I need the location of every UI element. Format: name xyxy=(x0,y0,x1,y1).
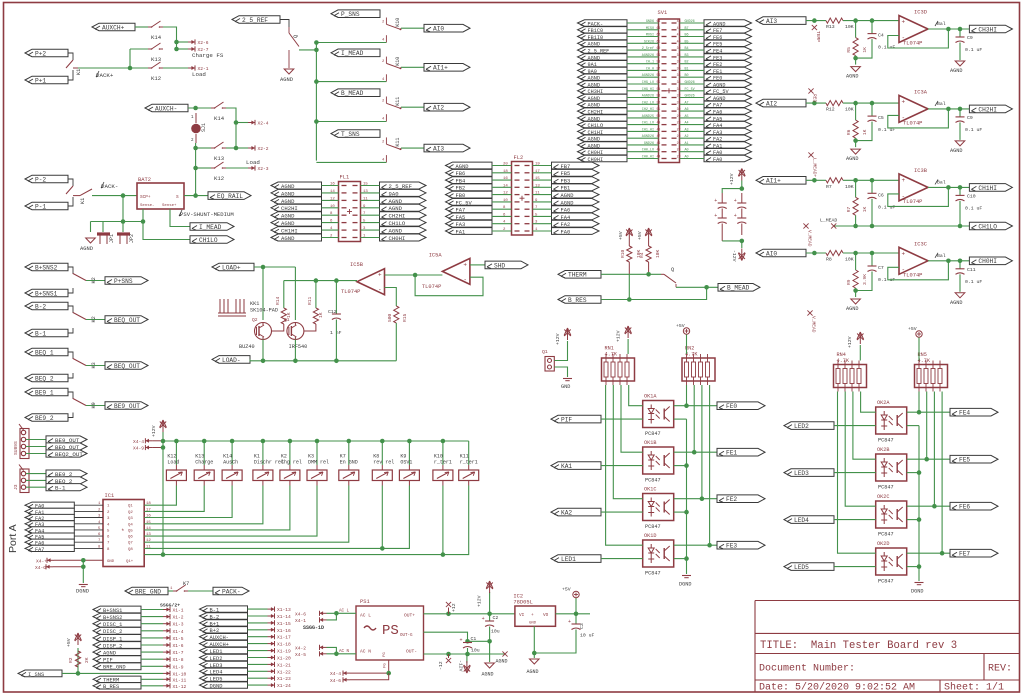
svg-text:X2-2: X2-2 xyxy=(258,146,269,152)
unconnected stub V_MEAD 2 xyxy=(807,310,812,315)
svg-text:+: + xyxy=(902,177,906,184)
svg-text:I_SNS: I_SNS xyxy=(28,672,44,678)
wire C5 bottom xyxy=(856,122,872,141)
svg-text:AGND: AGND xyxy=(950,300,962,306)
wire K1 to BAT2 xyxy=(92,195,137,197)
svg-text:27: 27 xyxy=(677,127,681,131)
svg-text:En GND: En GND xyxy=(340,460,358,466)
svg-text:B0: B0 xyxy=(685,74,689,78)
wire q1 to 12v xyxy=(554,341,567,361)
optocoupler OK2D xyxy=(876,548,907,575)
flag B+SNS2 xyxy=(25,263,68,271)
wire ic5a top to SHD xyxy=(470,264,485,266)
wire sv1 right xyxy=(680,103,705,105)
relay contact K13 aux xyxy=(211,147,215,149)
svg-text:PC847: PC847 xyxy=(878,485,894,491)
wire J3 pin3 xyxy=(26,486,46,488)
wire sv1 left xyxy=(627,158,659,160)
wire rn1 to OK1D xyxy=(606,385,643,545)
wire C7 bottom xyxy=(856,272,872,291)
node k13 aux left xyxy=(193,146,198,151)
svg-text:LOAD-: LOAD- xyxy=(222,357,241,364)
svg-text:X1-20: X1-20 xyxy=(277,656,291,662)
resistor R6 1K xyxy=(855,103,857,120)
wire fl2 left xyxy=(492,230,512,232)
wire switch to BEQ_OUT xyxy=(86,365,105,367)
wire x4+ to ic1 xyxy=(54,559,103,561)
flag FA0 fl2 right xyxy=(552,228,600,235)
node fe2 xyxy=(700,496,705,501)
resistor network RN2 4.7K xyxy=(682,358,715,381)
switch lower stub K11 xyxy=(385,155,387,162)
wire BAT2 CH1LO xyxy=(143,222,190,240)
svg-text:GND: GND xyxy=(107,560,115,564)
flag FC_5V sv1 right xyxy=(704,88,752,95)
wire sv1 right xyxy=(680,97,705,99)
svg-text:X1-12: X1-12 xyxy=(173,684,187,690)
wire X3 pin4 xyxy=(26,453,46,455)
svg-text:X1-13: X1-13 xyxy=(277,607,291,613)
svg-text:X1-24: X1-24 xyxy=(277,683,291,689)
wire sv1 left xyxy=(627,69,659,71)
capacitor C12 1nF xyxy=(335,281,337,314)
wire IC1 out2 to coil xyxy=(144,486,204,512)
wire switch to BE9_OUT xyxy=(86,405,105,407)
wire q1 drain xyxy=(294,267,296,320)
node sense1 xyxy=(121,219,126,224)
wire ref to Q switch xyxy=(280,20,289,28)
wire AUXCH+ to K14 xyxy=(135,26,148,28)
supply +5V circle ic2 xyxy=(575,598,577,614)
svg-text:THERM: THERM xyxy=(568,272,587,279)
flag CH0HI sv1 left xyxy=(578,155,628,161)
wire rn5 pin1 down to fe4 xyxy=(918,392,920,413)
wire fl2 right xyxy=(533,172,552,174)
flag FA1 sv1 right xyxy=(704,142,752,148)
resistor R9 3.9K xyxy=(855,253,857,270)
svg-text:13: 13 xyxy=(363,190,368,194)
svg-text:MOSI: MOSI xyxy=(646,34,654,38)
unconnected AGND stub xyxy=(502,651,507,656)
svg-text:14: 14 xyxy=(503,184,508,188)
svg-text:10u: 10u xyxy=(471,648,480,654)
svg-text:Q: Q xyxy=(293,35,299,38)
ground AGND R5 xyxy=(851,67,861,72)
wire R7 bottom xyxy=(855,215,857,226)
wire J3 pin2 xyxy=(26,479,46,481)
wire switch to B_MEAD xyxy=(676,286,718,288)
svg-text:Q6: Q6 xyxy=(128,536,133,540)
svg-text:AGND: AGND xyxy=(846,156,858,162)
flag BRE_GND k7 xyxy=(125,587,168,595)
flag DISP_1 bottom left xyxy=(93,635,141,642)
wire OK2D collector out xyxy=(907,552,950,554)
svg-text:PC847: PC847 xyxy=(645,431,661,437)
wire fl1 right xyxy=(361,185,380,187)
svg-text:B_MEAD: B_MEAD xyxy=(341,90,364,97)
svg-text:13: 13 xyxy=(535,184,540,188)
node bus K2 xyxy=(288,439,293,444)
xref arrow X1-16 xyxy=(268,629,275,631)
svg-text:R13: R13 xyxy=(826,24,835,30)
flag B-1 xyxy=(25,329,68,337)
svg-text:-12V: -12V xyxy=(458,660,464,672)
svg-text:CH1_HI: CH1_HI xyxy=(642,128,654,132)
wire switch to BEQ_OUT xyxy=(86,319,105,321)
wire bus to K7 xyxy=(348,441,350,465)
svg-text:23: 23 xyxy=(677,155,681,159)
wire R9 bottom xyxy=(855,288,857,297)
xref arrow X2-2 xyxy=(248,147,255,149)
wire BEQ_2 to switch xyxy=(68,373,73,378)
wire ic5b minus to R15 xyxy=(385,288,397,307)
switch lower stub K11 xyxy=(385,114,387,121)
xref arrow X1-5 xyxy=(163,637,170,639)
flag FB4 fl2 left xyxy=(446,177,493,184)
capacitor C2 10u xyxy=(489,614,491,621)
wire load+ bus xyxy=(254,266,295,268)
wire DISC_1 to X1 xyxy=(141,623,163,625)
node out IC3D xyxy=(946,27,951,32)
relay contact K3 xyxy=(72,358,74,361)
svg-text:DGND: DGND xyxy=(76,589,89,595)
power supply PS1 xyxy=(356,606,424,660)
wire sv1 left xyxy=(627,56,659,58)
flag FE2 sv1 right xyxy=(704,61,752,67)
supply +5V circle rn5 xyxy=(916,331,922,337)
wire K14 to vert xyxy=(226,108,236,148)
wire KA1 to opto xyxy=(601,465,643,467)
flag FE4 sv1 right xyxy=(704,47,752,53)
node rail c2 xyxy=(487,639,492,644)
wire R12 to opamp xyxy=(843,102,899,104)
svg-text:FC_5V: FC_5V xyxy=(685,88,696,92)
node rail 2 xyxy=(161,445,166,450)
xref arrow X1-14 xyxy=(268,615,275,617)
wire isns row xyxy=(62,672,163,674)
flag BEQ_2 j3 xyxy=(46,477,87,484)
xref arrow X4-1 ps xyxy=(320,619,327,621)
wire K1 to K12 xyxy=(78,67,148,69)
svg-text:-12V: -12V xyxy=(731,250,737,262)
wire K12 to X2-1 xyxy=(163,67,188,69)
svg-text:K13: K13 xyxy=(151,56,161,63)
svg-text:R12: R12 xyxy=(826,107,835,113)
svg-text:X1-21: X1-21 xyxy=(277,662,291,668)
svg-text:LED5: LED5 xyxy=(794,564,809,571)
wire OK2B emitter xyxy=(907,472,919,474)
svg-text:GND26: GND26 xyxy=(644,142,654,146)
flag FA4 sv1 right xyxy=(704,121,752,127)
optocoupler OK2B xyxy=(876,454,907,481)
xref arrow X1-22 xyxy=(268,670,275,672)
svg-text:32: 32 xyxy=(677,94,681,98)
wire c3 gnd xyxy=(534,630,576,654)
xref arrow X2-3 xyxy=(248,167,255,169)
wire k10 drop xyxy=(442,486,444,555)
svg-text:AC N: AC N xyxy=(339,650,350,654)
flag AGND sv1 left xyxy=(578,81,628,87)
flag AGND fl2 left xyxy=(446,162,493,169)
flag FA4 port a xyxy=(25,527,74,533)
wire B-2 to switch xyxy=(68,306,73,313)
flag LED5 xyxy=(784,563,834,571)
node fe7 xyxy=(940,551,945,556)
flag DISC_2 bottom left xyxy=(93,627,141,634)
flag BEQ2_OUT x3 xyxy=(46,450,87,457)
svg-text:X1-3: X1-3 xyxy=(173,622,184,628)
svg-text:AI3: AI3 xyxy=(433,146,444,153)
flag BRE_GND bottom left xyxy=(93,663,141,670)
svg-text:AGND: AGND xyxy=(496,659,508,665)
jumper JP1 xyxy=(97,232,110,235)
resistor network RN1 4.7K xyxy=(602,358,635,381)
svg-text:CH1HI: CH1HI xyxy=(978,185,997,192)
svg-text:GND26: GND26 xyxy=(685,20,695,24)
wire B-1 to switch xyxy=(68,328,73,333)
svg-text:X4-5: X4-5 xyxy=(295,652,306,658)
flag CH1LO fl1 right xyxy=(380,219,427,226)
svg-text:K11: K11 xyxy=(395,138,401,147)
wire to K13 aux xyxy=(196,147,211,149)
unconnected stub V_MEAD xyxy=(803,223,808,228)
node buffer xyxy=(413,273,418,278)
svg-text:AGND: AGND xyxy=(281,220,295,227)
op-amp IC5B xyxy=(357,269,385,295)
svg-text:AGND: AGND xyxy=(950,68,962,74)
wire fl2 right xyxy=(533,201,552,203)
wire fl1 right xyxy=(361,192,380,194)
svg-text:X4-G: X4-G xyxy=(35,565,46,571)
wire IC1 out3 to coil xyxy=(144,486,232,518)
wire R7 to opamp xyxy=(843,179,899,181)
wire OK1B emitter xyxy=(674,465,687,467)
wire rn1 to OK1C xyxy=(613,385,642,499)
svg-text:BE9_OUT: BE9_OUT xyxy=(114,403,140,410)
svg-text:BRE_GND: BRE_GND xyxy=(103,665,126,671)
flag FA5 sv1 right xyxy=(704,115,752,121)
wire FA7 to IC1 xyxy=(74,547,103,549)
svg-text:OK1A: OK1A xyxy=(644,394,657,400)
feedback IC3D xyxy=(888,29,949,48)
flag FE0 sv1 right xyxy=(704,74,752,80)
svg-text:FG: FG xyxy=(384,663,388,668)
flag FB5 fl2 right xyxy=(552,169,600,176)
node src q1 xyxy=(293,359,298,364)
svg-text:C12: C12 xyxy=(328,309,337,315)
node rail com xyxy=(161,552,166,557)
node rc join IC3C xyxy=(853,288,858,293)
wire R5 bottom xyxy=(855,56,857,65)
wire OK2D emitter xyxy=(907,566,919,568)
svg-text:2_5_REF: 2_5_REF xyxy=(242,17,268,24)
node pack- junction xyxy=(121,193,126,198)
wire to K12 aux xyxy=(196,167,211,169)
flag AUXCH+ xyxy=(92,23,135,31)
node gate c12 xyxy=(334,278,339,283)
wire BE9_1 to switch xyxy=(68,392,73,399)
wire ic5a feedback xyxy=(415,275,483,296)
svg-text:R10: R10 xyxy=(620,249,626,258)
wire B+SNS2 to X1 xyxy=(141,616,163,618)
svg-text:-: - xyxy=(378,287,382,294)
svg-text:Load: Load xyxy=(246,159,260,166)
wire R6 bottom xyxy=(855,138,857,147)
svg-text:CH2_HI: CH2_HI xyxy=(642,108,654,112)
svg-text:IC5B: IC5B xyxy=(350,262,364,268)
node out IC3B xyxy=(946,185,951,190)
wire OK2A collector out xyxy=(907,411,950,413)
flag P+2 xyxy=(25,49,68,57)
switch stub K11 xyxy=(385,97,387,104)
wire LED1 to X1 xyxy=(248,650,268,652)
svg-text:AGND: AGND xyxy=(281,190,295,197)
wire rn2 pin3 down to fe2 xyxy=(701,385,703,499)
wire fl2 left xyxy=(492,186,512,188)
svg-text:FE3: FE3 xyxy=(726,543,737,550)
svg-text:BE9_2: BE9_2 xyxy=(35,415,54,422)
relay contact K2 xyxy=(72,273,74,276)
node q out xyxy=(314,48,319,53)
stub -12 xarrow xyxy=(448,654,450,658)
svg-text:12: 12 xyxy=(503,192,508,196)
flag FE6 xyxy=(950,502,998,510)
svg-text:PC847: PC847 xyxy=(645,478,661,484)
svg-text:X1-22: X1-22 xyxy=(277,669,291,675)
wire q1 source to bus xyxy=(294,340,296,361)
svg-text:Sense+: Sense+ xyxy=(162,204,177,208)
relay coil K8 xyxy=(372,470,392,481)
svg-text:CH0HI: CH0HI xyxy=(389,235,406,242)
wire FA2 to IC1 xyxy=(74,517,103,519)
svg-text:R14: R14 xyxy=(275,296,281,305)
flag 2_5_REF sv1 left xyxy=(578,47,628,53)
svg-text:Q8: Q8 xyxy=(128,548,133,552)
svg-text:K12: K12 xyxy=(151,75,161,82)
wire LED2 to X1 xyxy=(248,657,268,659)
flag BEQ_2 xyxy=(25,374,68,382)
resistor R14 1K xyxy=(283,281,285,308)
svg-text:+: + xyxy=(734,213,737,219)
wire cap top left xyxy=(722,189,742,193)
svg-text:P+SNS: P+SNS xyxy=(114,278,133,285)
wire OK2B collector out xyxy=(907,458,950,460)
svg-text:17: 17 xyxy=(535,170,540,174)
node r IC3D xyxy=(853,18,858,23)
xref arrow X4-+ xyxy=(47,559,54,561)
svg-text:P-2: P-2 xyxy=(35,176,46,183)
svg-text:B1: B1 xyxy=(685,67,689,71)
flag FA2 fl2 right xyxy=(552,220,600,227)
svg-text:0.1 uF: 0.1 uF xyxy=(965,205,982,211)
flag FA1 port a xyxy=(25,508,74,514)
svg-text:+12V: +12V xyxy=(555,333,561,345)
svg-text:AGND: AGND xyxy=(281,213,295,220)
switch stub K10 xyxy=(385,57,387,64)
relay contact K1 pack+ xyxy=(66,60,73,68)
svg-text:K13: K13 xyxy=(214,155,224,162)
wire rn2 pin1 down to fe0 xyxy=(686,385,688,406)
wire AI1+ input xyxy=(806,179,826,181)
wire OK2A emitter xyxy=(907,425,919,427)
flag BEQ_OUT xyxy=(105,362,148,370)
svg-text:C6: C6 xyxy=(878,192,884,198)
node X2-2 junction xyxy=(234,146,239,151)
flag CH2HI sv1 left xyxy=(578,108,628,114)
svg-text:MISO: MISO xyxy=(646,27,654,31)
flag FE0 xyxy=(717,402,765,410)
svg-text:DGND: DGND xyxy=(210,684,223,690)
wire sv1 right xyxy=(680,29,705,31)
svg-text:PIF: PIF xyxy=(561,417,572,424)
svg-text:K12: K12 xyxy=(214,175,224,182)
svg-text:Chg rel: Chg rel xyxy=(281,460,302,466)
flag CH0HI fl1 right xyxy=(380,234,427,241)
flag FB1C0 sv1 left xyxy=(578,27,628,33)
relay contact K7 xyxy=(173,590,177,592)
flag FB3 fl2 right xyxy=(552,177,600,184)
resistor network RN5 4.7K xyxy=(915,365,948,388)
svg-text:r_ter1: r_ter1 xyxy=(434,460,452,466)
supply +12V arrow cap filter xyxy=(741,170,743,181)
svg-text:B4: B4 xyxy=(685,47,689,51)
flag CH2HI fl1 left xyxy=(271,204,322,211)
svg-text:12: 12 xyxy=(330,197,335,201)
flag B-2 bottom right xyxy=(200,613,248,619)
svg-text:C4: C4 xyxy=(878,33,884,39)
node ic2 out xyxy=(574,612,579,617)
wire q2 source to bus xyxy=(262,340,264,361)
wire fl2 right xyxy=(533,179,552,181)
flag FA6 port a xyxy=(25,539,74,545)
bus tap xyxy=(316,161,386,163)
flag P_SNS xyxy=(331,10,380,18)
wire C9 gnd xyxy=(959,43,961,61)
svg-text:64: 64 xyxy=(657,19,661,23)
wire bus to K11 xyxy=(468,441,470,465)
wire SJ1 bus down to pack- xyxy=(195,168,197,196)
wire therm row xyxy=(601,273,661,275)
solder jumper SJ1 xyxy=(191,124,201,134)
svg-text:IC3C: IC3C xyxy=(914,241,927,247)
wire bus to K8 xyxy=(381,441,383,465)
wire bus to K14 xyxy=(231,441,233,465)
node ch1lo c6 xyxy=(870,224,875,229)
flag BE9_1 xyxy=(25,388,68,396)
node cout IC3D xyxy=(958,27,963,32)
svg-text:FE0: FE0 xyxy=(726,403,737,410)
wire ic5b plus to ic5a xyxy=(385,274,443,276)
svg-text:B_MEAD: B_MEAD xyxy=(727,285,750,292)
wire LED1 to opto xyxy=(601,558,643,560)
svg-text:0.1 uF: 0.1 uF xyxy=(965,127,982,133)
wire C6 bottom xyxy=(871,199,873,226)
svg-text:+: + xyxy=(482,616,485,622)
wire sv1 left xyxy=(627,110,659,112)
svg-text:SCP+: SCP+ xyxy=(140,195,151,200)
svg-text:19: 19 xyxy=(535,163,540,167)
svg-text:AI1+: AI1+ xyxy=(766,178,781,185)
unconnected stub TEMP xyxy=(812,25,817,30)
svg-text:58: 58 xyxy=(657,60,661,64)
supply +5V arrow therm xyxy=(628,229,630,240)
svg-text:AC L: AC L xyxy=(339,609,350,613)
svg-text:AGND: AGND xyxy=(389,205,403,212)
svg-text:C7: C7 xyxy=(878,265,884,271)
flag DISC_1 bottom left xyxy=(93,620,141,627)
svg-text:X1-5: X1-5 xyxy=(173,636,184,642)
svg-text:PSV-SHUNT-MEDIUM: PSV-SHUNT-MEDIUM xyxy=(180,211,234,218)
